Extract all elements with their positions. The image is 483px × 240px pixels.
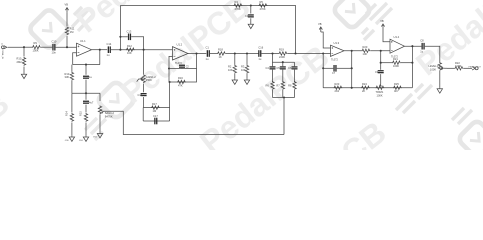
svg-text:C17: C17 — [153, 114, 158, 118]
capacitor C15 node B chain — [138, 84, 147, 108]
node fb2 left junction — [168, 67, 170, 69]
capacitor C16 — [258, 46, 264, 61]
svg-text:R5: R5 — [260, 0, 264, 4]
svg-text:VB: VB — [318, 22, 322, 26]
potentiometer GAIN 250K — [137, 74, 157, 83]
svg-text:470K: 470K — [235, 7, 241, 11]
op-amp U1.1 — [77, 39, 92, 56]
wire opamp2 output — [188, 53, 206, 55]
resistor R19 — [279, 48, 288, 59]
svg-text:470K: 470K — [260, 7, 266, 11]
resistor R12 — [126, 44, 135, 55]
decorative watermark diamond logo mid-left — [96, 80, 136, 120]
svg-text:C13: C13 — [127, 29, 132, 33]
node box junction — [169, 81, 171, 83]
resistor R22 — [455, 61, 464, 70]
svg-text:PedalPCB: PedalPCB — [250, 114, 393, 150]
capacitor C6 tone col C — [288, 62, 297, 82]
wire opamp2 inverting input — [169, 56, 173, 68]
capacitor C5 tone col B — [276, 62, 285, 82]
wire bottom row — [323, 87, 412, 89]
resistor R17 — [151, 102, 160, 113]
node fb3 right junction — [351, 67, 353, 69]
decorative watermark diamond logo top-left — [28, 8, 70, 50]
decorative watermark stripes bottom-right — [396, 84, 472, 124]
resistor R25 bottom row — [393, 82, 402, 93]
resistor R23 bottom row — [334, 82, 343, 93]
svg-text:33K: 33K — [65, 75, 70, 79]
resistor R2 shunt — [228, 54, 237, 79]
svg-text:10K: 10K — [241, 68, 246, 72]
node C13 branch junction — [119, 36, 121, 38]
wire opamp3 feedback right — [351, 51, 353, 69]
svg-text:PedalPCB: PedalPCB — [114, 0, 257, 111]
wire opamp3 feedback left — [322, 54, 324, 69]
op-amp U1.4 — [390, 35, 405, 58]
wire R9 to C10 — [41, 46, 52, 48]
wire C8 to level pot — [425, 46, 440, 62]
svg-text:100R: 100R — [455, 64, 461, 68]
resistor R16 — [177, 76, 186, 87]
svg-text:1u: 1u — [89, 75, 92, 79]
resistor R10 — [17, 57, 26, 66]
resistor R21 — [381, 57, 413, 68]
potentiometer SAG1.2 — [98, 106, 114, 119]
capacitor C3 to ground — [245, 6, 254, 24]
svg-text:C4: C4 — [266, 66, 270, 70]
wire opamp1 inverting input — [73, 53, 77, 65]
svg-text:GND: GND — [79, 140, 84, 142]
capacitor C8 output — [420, 38, 424, 53]
node VB1 junction — [66, 46, 68, 48]
svg-text:R16: R16 — [178, 76, 183, 80]
svg-text:R6: R6 — [266, 84, 270, 88]
svg-text:TL072: TL072 — [331, 59, 338, 62]
wire pot1 to ground — [99, 115, 101, 133]
svg-text:100K: 100K — [377, 94, 383, 98]
ground level pot — [437, 88, 442, 94]
VB supply arrow 3 — [318, 22, 322, 32]
svg-text:1K: 1K — [219, 55, 222, 59]
svg-text:100K: 100K — [430, 68, 436, 72]
node A junction — [23, 46, 25, 48]
svg-text:R20: R20 — [363, 45, 368, 49]
svg-text:4K7: 4K7 — [394, 89, 399, 93]
wire tone rail bottom — [273, 97, 295, 99]
svg-text:1u: 1u — [206, 57, 209, 61]
trimmer TRIM1 — [376, 84, 385, 97]
wire opamp3 lower loop left — [322, 68, 324, 88]
svg-text:2K: 2K — [362, 89, 365, 93]
capacitor C14 — [107, 42, 112, 57]
svg-text:R19: R19 — [279, 48, 284, 52]
svg-text:2M2: 2M2 — [17, 60, 23, 64]
node opamp2 out junction — [195, 52, 197, 54]
wire R11 to node VB1 — [66, 36, 68, 47]
node shunt1 junction — [234, 52, 236, 54]
node feedback junction B1 — [85, 64, 87, 66]
VB supply arrow 4 — [380, 19, 384, 29]
svg-text:R10: R10 — [17, 57, 22, 61]
resistor R3 shunt — [241, 54, 249, 79]
svg-text:R21: R21 — [393, 57, 398, 61]
svg-text:1M: 1M — [70, 30, 74, 34]
wire opamp4 output — [405, 45, 422, 47]
wire node A to R9 — [24, 46, 32, 48]
svg-text:J1: J1 — [1, 44, 4, 46]
node top loop junction — [250, 4, 252, 6]
resistor R14 — [65, 93, 74, 136]
svg-text:GAIN1.2: GAIN1.2 — [146, 75, 157, 79]
wire bottom row right riser — [411, 63, 413, 88]
node opamp3 out junction — [351, 50, 353, 52]
box R17 C17 top wire — [143, 107, 169, 109]
wire R19 to opamp3 node — [288, 53, 324, 55]
svg-text:R25: R25 — [394, 82, 399, 86]
resistor R13 — [65, 65, 74, 94]
wire node B down — [143, 50, 145, 74]
decorative watermark diamond logo bottom-right — [457, 119, 483, 159]
node bottom row junction — [351, 87, 353, 89]
box left side — [142, 108, 144, 121]
ground below R10 — [21, 73, 26, 79]
VB supply arrow 1 — [65, 2, 69, 12]
node opamp4 out junction — [411, 45, 413, 47]
decorative watermark stripes top-right — [362, 3, 392, 40]
svg-text:C14: C14 — [107, 42, 112, 46]
svg-text:R2: R2 — [228, 65, 232, 69]
wire node A down to R10 — [23, 47, 25, 56]
svg-text:R11: R11 — [70, 27, 75, 31]
node tone rail junction — [282, 61, 284, 63]
svg-text:U1.2: U1.2 — [177, 42, 183, 46]
wire R20 to opamp4 inverting — [371, 50, 391, 52]
capacitor C12 col2 — [83, 93, 94, 112]
svg-text:R14: R14 — [65, 111, 69, 116]
svg-text:U1.1: U1.1 — [80, 39, 86, 43]
capacitor C2 — [179, 65, 189, 69]
resistor R8 tone col C — [288, 81, 296, 98]
wire C16 to R19 — [262, 53, 279, 55]
wire rail2 to pot1 — [99, 93, 101, 101]
ground top loop — [248, 23, 253, 29]
input jack IN1 — [1, 44, 7, 60]
svg-text:PEDAL_OUT: PEDAL_OUT — [469, 65, 482, 68]
wire R10 to ground — [23, 67, 25, 74]
ground col1 — [65, 136, 75, 142]
ground col2 — [79, 136, 89, 142]
wire R22 to output jack — [464, 67, 473, 69]
svg-text:C15: C15 — [138, 93, 143, 97]
wire opamp2 feedback top — [169, 54, 197, 69]
capacitor C13 — [120, 29, 143, 49]
svg-text:VB: VB — [65, 2, 69, 6]
svg-text:PedalPCB: PedalPCB — [193, 38, 336, 150]
wire opamp2 feedback lower loop — [169, 69, 197, 83]
resistor R7 tone col B — [276, 81, 284, 98]
node B junction — [143, 49, 145, 51]
svg-text:R15: R15 — [79, 111, 83, 116]
capacitor C11 — [83, 65, 92, 94]
capacitor C17 — [153, 114, 158, 124]
svg-text:10n: 10n — [52, 51, 57, 55]
node rail2 junction — [85, 92, 87, 94]
wire opamp3 output — [344, 50, 362, 52]
wire tone rail top — [273, 54, 295, 63]
svg-text:1u: 1u — [258, 57, 261, 61]
decorative watermark stripes mid-left — [85, 118, 106, 140]
decorative watermark diamond logo top-right — [332, 0, 372, 30]
svg-text:GND: GND — [65, 140, 70, 142]
output jack PEDAL_OUT — [469, 65, 482, 70]
node loop-left junction — [119, 49, 121, 51]
svg-text:C16: C16 — [258, 46, 263, 50]
node tone bottom junction — [283, 96, 285, 98]
capacitor C7 feedback — [323, 65, 352, 75]
wire top loop — [120, 6, 295, 54]
svg-text:100K: 100K — [33, 49, 39, 53]
svg-text:VB: VB — [380, 19, 384, 23]
svg-text:R4: R4 — [235, 0, 239, 4]
node shunt2 junction — [246, 52, 248, 54]
svg-text:U1.4: U1.4 — [394, 35, 400, 39]
resistor R9 — [32, 41, 41, 52]
svg-text:R13: R13 — [65, 72, 70, 76]
svg-text:1M: 1M — [153, 109, 157, 113]
svg-text:C6: C6 — [288, 66, 292, 70]
node fb4 junction — [380, 50, 382, 52]
svg-text:10K: 10K — [363, 52, 368, 56]
wire wiper to R22 — [447, 67, 455, 69]
svg-text:PEDAL_IN: PEDAL_IN — [1, 50, 4, 60]
ground shunt2 — [244, 79, 249, 85]
op-amp U1.3 — [331, 41, 345, 62]
wire level pot to ground — [439, 71, 441, 88]
svg-text:47K: 47K — [178, 83, 183, 87]
svg-text:R23: R23 — [335, 82, 340, 86]
wire opamp1 feedback right — [99, 50, 101, 65]
svg-text:TRIM1: TRIM1 — [376, 90, 384, 94]
wire C14 to opamp2 — [111, 49, 173, 51]
op-amp U1.2 — [173, 42, 189, 65]
svg-text:250K: 250K — [146, 78, 152, 82]
wire loop left riser — [119, 6, 121, 50]
box right side riser — [169, 82, 171, 121]
capacitor C10 — [52, 39, 57, 54]
wire C1 to R18 — [210, 53, 217, 55]
potentiometer LEVEL — [429, 62, 448, 72]
node opamp1 out junction — [99, 49, 101, 51]
resistor R11 — [65, 27, 75, 36]
node fb4 left junction — [380, 62, 382, 64]
svg-text:C3: C3 — [245, 14, 249, 18]
resistor R24 bottom row — [361, 82, 370, 93]
svg-text:C5: C5 — [276, 66, 280, 70]
svg-text:U1.3: U1.3 — [334, 41, 340, 45]
decorative watermark stripes top-left — [72, 7, 94, 31]
wire opamp1 output — [92, 49, 108, 51]
node opamp3 in junction — [322, 52, 324, 54]
node loop-right junction — [294, 52, 296, 54]
svg-text:R24: R24 — [362, 82, 367, 86]
svg-text:220K: 220K — [279, 55, 285, 59]
svg-text:C10: C10 — [52, 39, 57, 43]
resistor R15 — [79, 111, 88, 136]
svg-text:1u: 1u — [107, 53, 110, 57]
wire opamp4 feedback right — [411, 46, 413, 63]
resistor R18 — [217, 48, 226, 59]
circuit layer — [1, 0, 482, 142]
node fb4 right junction — [411, 62, 413, 64]
wire opamp3 inverting stub — [323, 53, 330, 55]
ground shunt1 — [232, 79, 237, 85]
wire VB3 to opamp3 noninverting — [321, 32, 331, 48]
resistor R4 top loop — [234, 0, 243, 11]
svg-text:R17: R17 — [152, 102, 157, 106]
wire opamp1 feedback bottom — [73, 64, 100, 66]
resistor R20 — [362, 45, 371, 56]
wire C10 to opamp1 input — [56, 46, 77, 48]
svg-text:C7: C7 — [332, 72, 336, 75]
svg-text:GND: GND — [93, 136, 98, 138]
svg-text:2K2: 2K2 — [335, 89, 340, 93]
svg-text:10K: 10K — [127, 51, 132, 55]
svg-text:R12: R12 — [127, 44, 132, 48]
svg-text:R7: R7 — [276, 84, 280, 88]
wire VB4 to opamp4 noninverting — [383, 29, 390, 42]
svg-text:R8: R8 — [288, 84, 292, 88]
wire opamp3 lower loop right — [351, 68, 353, 88]
svg-text:C8: C8 — [420, 38, 424, 42]
resistor R6 tone col A — [266, 81, 275, 98]
capacitor C4 tone col A — [266, 62, 276, 82]
wire tone bottom to long return — [283, 98, 285, 135]
svg-text:PedalPCB: PedalPCB — [0, 85, 16, 150]
rail2 wire — [72, 92, 100, 94]
svg-text:R18: R18 — [218, 48, 223, 52]
wire R18 onward — [226, 53, 260, 55]
node fb3 left junction — [322, 67, 324, 69]
svg-text:10K: 10K — [228, 68, 233, 72]
capacitor C1 — [206, 46, 210, 61]
resistor R5 top loop — [259, 0, 268, 11]
capacitor C9 — [375, 63, 384, 84]
svg-text:100K: 100K — [393, 64, 399, 68]
svg-text:C1: C1 — [206, 46, 210, 50]
svg-text:R3: R3 — [241, 65, 245, 69]
ground col3 — [93, 132, 103, 138]
svg-text:4u7: 4u7 — [89, 100, 94, 104]
box bottom wire — [143, 120, 169, 122]
wire input to node A — [8, 46, 24, 48]
svg-text:B470K: B470K — [105, 114, 113, 118]
node tone-top junction — [271, 52, 273, 54]
wire VB1 to R11 — [66, 13, 68, 26]
wire pot1 wiper to long return — [110, 111, 284, 134]
svg-text:LEVEL1.2: LEVEL1.2 — [429, 64, 441, 68]
svg-text:R9: R9 — [34, 41, 38, 45]
wire opamp4 feedback left — [380, 51, 382, 63]
